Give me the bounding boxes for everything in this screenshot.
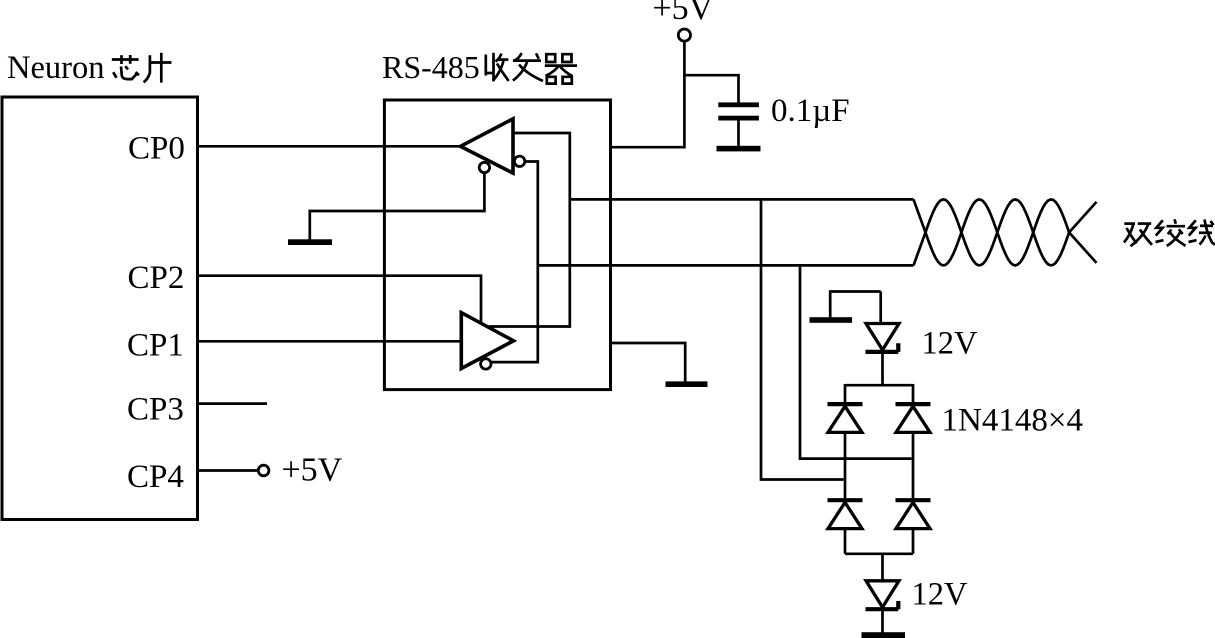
wire transceiver ground pin <box>611 343 686 382</box>
wire CP3 stub <box>198 402 268 405</box>
svg-text:CP0: CP0 <box>128 131 185 167</box>
wire receiver input B / driver output B tie <box>490 162 537 363</box>
svg-text:12V: 12V <box>912 577 969 613</box>
diode D4 1N4148 (lower right) <box>896 502 930 528</box>
wire zener D6 to ground <box>881 609 884 632</box>
capacitor C1 plate top <box>718 102 759 107</box>
wire top bus conductor A <box>570 198 914 201</box>
bubble receiver inverting input (right edge) <box>514 156 524 166</box>
diode D3 1N4148 (lower left) <box>828 502 862 528</box>
diode D2 cathode bar <box>896 402 931 406</box>
glyph 收 (transceiver title) <box>486 53 509 82</box>
ground G1 (receiver enable) <box>288 239 332 245</box>
svg-text:CP4: CP4 <box>127 459 184 495</box>
wire receiver enable to ground <box>310 172 485 240</box>
glyph 绞 (twisted pair label) <box>1156 219 1186 246</box>
zener diode D6 12V (bottom) <box>866 581 899 607</box>
wire +5V rail down to transceiver <box>611 41 685 147</box>
wire bridge top rail <box>845 384 913 387</box>
svg-text:0.1µF: 0.1µF <box>771 93 850 129</box>
terminal circle +5V top <box>678 29 690 41</box>
wire right column upper <box>912 384 915 402</box>
bubble receiver enable (bottom edge) <box>479 162 489 172</box>
svg-text:CP3: CP3 <box>127 392 184 428</box>
glyph 器 (transceiver title) <box>545 54 577 83</box>
svg-text:+5V: +5V <box>653 0 714 27</box>
capacitor C1 plate bottom <box>718 116 759 121</box>
twisted pair wire 1 <box>914 199 1097 265</box>
wire right column lower <box>912 529 915 554</box>
wire left column lower <box>844 529 847 554</box>
wire left column middle <box>844 432 847 498</box>
wire CP2 to driver enable <box>198 276 482 324</box>
zener D6 cathode bar with tick <box>866 601 899 609</box>
svg-text:1N4148×4: 1N4148×4 <box>942 403 1083 439</box>
ground G3 (transceiver) <box>666 381 708 387</box>
diode D3 cathode bar <box>828 498 863 502</box>
wire CP0 to receiver output <box>198 145 461 148</box>
diode D1 cathode bar <box>828 402 863 406</box>
wire bottom bus conductor B <box>538 264 914 267</box>
bubble driver inverting output (bottom edge) <box>481 359 491 369</box>
glyph 线 (twisted pair label) <box>1189 220 1215 245</box>
twisted pair wire 2 <box>914 199 1097 265</box>
wire left column upper <box>844 384 847 402</box>
wire bridge bottom rail <box>845 552 913 555</box>
wire CP4 to +5V terminal <box>198 469 259 472</box>
svg-text:12V: 12V <box>922 326 979 362</box>
diode D1 1N4148 (upper left) <box>828 406 862 432</box>
svg-text:CP2: CP2 <box>128 260 185 296</box>
zener diode D5 12V (top) <box>866 324 899 350</box>
wire zener D5 top to ground bend <box>830 292 881 324</box>
wire CP1 to driver input <box>198 340 462 343</box>
svg-text:RS-485: RS-485 <box>382 49 480 85</box>
wire receiver input A from bus <box>489 133 570 327</box>
wire bottom rail to zener D6 <box>881 554 884 581</box>
svg-text:CP1: CP1 <box>127 328 184 364</box>
svg-text:Neuron: Neuron <box>7 50 104 86</box>
wire B line down to bridge right node <box>800 265 912 458</box>
svg-text:+5V: +5V <box>282 452 343 489</box>
ground G4 (top zener) <box>810 317 853 323</box>
chip U1 Neuron box <box>2 97 198 520</box>
wire branch to capacitor <box>684 75 738 102</box>
IC U2 RS-485 transceiver box <box>384 100 610 390</box>
wire right column middle <box>912 432 915 498</box>
wire zener D5 to bridge top rail <box>881 352 884 385</box>
ground G2 (capacitor) <box>717 146 761 152</box>
zener D5 cathode bar with tick <box>866 343 899 352</box>
terminal circle CP4 +5V <box>258 465 269 476</box>
glyph 双 (twisted pair label) <box>1124 224 1152 247</box>
wire capacitor to ground <box>737 121 740 147</box>
glyph 发 (transceiver title) <box>513 53 543 81</box>
buffer U2B driver triangle <box>461 313 513 369</box>
glyph 芯 (chip title) <box>112 55 139 79</box>
glyph 片 (chip title) <box>144 53 172 83</box>
diode D4 cathode bar <box>896 498 931 502</box>
buffer U2A receiver triangle <box>461 119 514 173</box>
diode D2 1N4148 (upper right) <box>896 406 930 432</box>
ground G5 (bottom) <box>862 632 906 638</box>
wire A line down to bridge left node <box>761 199 844 479</box>
